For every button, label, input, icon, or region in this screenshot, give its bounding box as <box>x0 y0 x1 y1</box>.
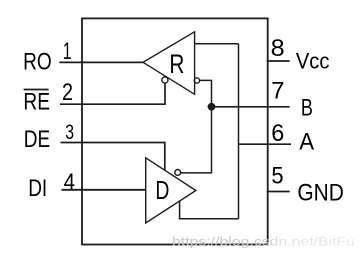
svg-text:1: 1 <box>63 38 72 65</box>
svg-text:D: D <box>155 175 169 205</box>
driver inverting output bubble on D top slope <box>175 170 181 176</box>
pin 1 wire RO <box>59 61 143 63</box>
svg-text:4: 4 <box>64 168 75 194</box>
svg-text:RE: RE <box>23 89 50 116</box>
driver U1B triangle D <box>146 158 196 223</box>
svg-text:A: A <box>299 129 314 156</box>
receiver enable bubble on R bottom slope <box>162 77 168 83</box>
pin 6 wire A <box>239 143 292 145</box>
svg-text:https://blog.csdn.net/BitFu: https://blog.csdn.net/BitFu <box>172 235 355 249</box>
svg-text:DI: DI <box>28 175 47 202</box>
pin 7 wire B <box>212 106 290 108</box>
svg-text:GND: GND <box>297 179 344 206</box>
wire D output A tap: bottom slope down <box>180 201 239 219</box>
pin 5 wire GND <box>267 191 290 193</box>
pin 8 wire Vcc <box>267 60 290 62</box>
svg-text:2: 2 <box>62 79 73 106</box>
svg-text:B: B <box>301 94 313 121</box>
wire R bubble to B bus <box>181 80 212 172</box>
svg-text:RO: RO <box>23 48 52 75</box>
wire R input A: triangle right edge to vertical bus <box>195 43 239 45</box>
pin 4 wire DI <box>62 189 146 191</box>
svg-text:Vcc: Vcc <box>296 49 330 74</box>
receiver inverting input bubble on R right edge <box>194 78 199 83</box>
receiver U1A triangle R <box>143 32 195 95</box>
pin 2 wire RE <box>60 83 165 104</box>
svg-text:3: 3 <box>65 120 74 144</box>
pin 3 wire DE <box>61 143 165 171</box>
IC body U1 <box>82 18 268 244</box>
wire A vertical bus <box>238 44 240 219</box>
svg-text:6: 6 <box>271 120 284 147</box>
svg-text:8: 8 <box>271 35 285 62</box>
svg-text:R: R <box>169 49 184 79</box>
svg-text:5: 5 <box>271 162 283 189</box>
junction node B <box>208 103 216 111</box>
svg-text:7: 7 <box>271 78 284 105</box>
svg-text:DE: DE <box>24 126 50 153</box>
